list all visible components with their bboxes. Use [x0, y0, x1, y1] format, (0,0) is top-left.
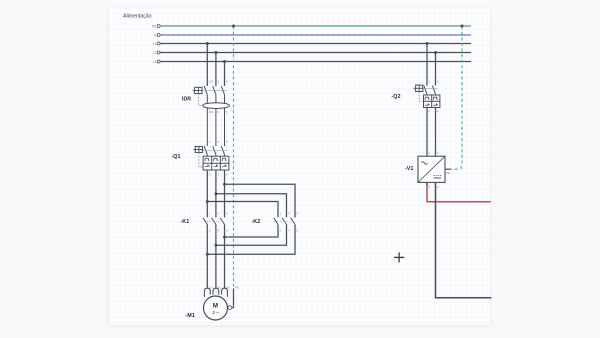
V1 AC symbol [422, 162, 428, 165]
wire Q2 pole1 to V1 [426, 108, 428, 157]
bus N (blue) [160, 34, 471, 36]
junction on L1 [206, 42, 209, 45]
K1 blade pole 3 [220, 218, 224, 225]
svg-text:PE: PE [152, 25, 156, 29]
Q2 magnetic elements [425, 104, 430, 106]
motor PE terminal [228, 306, 232, 310]
V1 PE stub [445, 168, 451, 170]
svg-text:L1: L1 [153, 42, 157, 46]
junction right PE [461, 25, 464, 28]
contactor K1 [203, 211, 228, 232]
wire L3 to IDR pole 3 [224, 62, 226, 87]
svg-text:4: 4 [437, 185, 439, 189]
junction pole3 branch [223, 183, 226, 186]
svg-text:1: 1 [428, 151, 430, 155]
K2 blade pole 3 [291, 218, 295, 225]
DC positive wire (red) [427, 182, 491, 201]
motor terminal sleeve V1 [213, 288, 219, 295]
Q1 linkage bar [202, 149, 227, 151]
PE dropper wire (green dashed, left) [233, 26, 235, 289]
svg-text:3: 3 [217, 211, 219, 215]
Q2 trip box [424, 95, 440, 108]
Q1 thermal elements [205, 158, 210, 161]
svg-text:6: 6 [226, 228, 228, 232]
svg-text:1: 1 [209, 140, 211, 144]
svg-text:2: 2 [428, 185, 430, 189]
IDR pole wires through toroid [206, 95, 208, 146]
PE dropper wire (green dashed, right) [451, 26, 463, 169]
svg-text:-M1: -M1 [186, 313, 195, 319]
IDR blade pole 2 [213, 86, 216, 95]
wire L1 to IDR pole 1 [206, 44, 208, 87]
K1 blade pole 1 [203, 218, 207, 225]
svg-text:6: 6 [226, 110, 228, 114]
svg-text:-K2: -K2 [252, 219, 261, 225]
bus L3 [160, 61, 471, 63]
svg-text:L3: L3 [153, 60, 157, 64]
IDR linkage bar [202, 89, 227, 91]
svg-text:4: 4 [217, 172, 219, 176]
Q2 linkage bar [423, 88, 437, 90]
Q2 actuator button [416, 85, 423, 91]
merge wire K2 pole3 to K1 pole1 [207, 224, 295, 254]
Q1 trip box [203, 156, 229, 170]
stub V1 out 2 [426, 182, 428, 186]
Q2 blade pole 1 [424, 86, 427, 95]
svg-text:2: 2 [428, 109, 430, 113]
svg-text:-Q1: -Q1 [172, 154, 181, 160]
Q2 trip dashed link [419, 92, 423, 102]
wires Q1 to K1 [207, 170, 295, 217]
converter V1 [418, 156, 451, 182]
wire pole3 down [224, 170, 226, 217]
V1 DC symbol [434, 174, 442, 176]
terminal N [157, 34, 160, 37]
svg-text:5: 5 [226, 140, 228, 144]
svg-text:5: 5 [226, 211, 228, 215]
svg-text:2: 2 [280, 228, 282, 232]
Q1 magnetic elements [205, 165, 210, 167]
svg-text:2: 2 [209, 172, 211, 176]
junction pole2 branch [214, 192, 217, 195]
svg-text:3: 3 [288, 211, 290, 215]
Q2 thermal elements [425, 97, 430, 100]
svg-text:4: 4 [217, 228, 219, 232]
Q1 short wires into trip box [206, 155, 208, 157]
junction merge pole3 [223, 236, 226, 239]
svg-text:N: N [154, 34, 157, 38]
wire pole1 down [206, 170, 208, 217]
junction on PE bus [232, 25, 235, 28]
svg-text:5: 5 [297, 211, 299, 215]
svg-text:2: 2 [209, 228, 211, 232]
svg-text:3: 3 [217, 80, 219, 84]
K2 blade pole 1 [274, 218, 278, 225]
svg-text:3: 3 [437, 151, 439, 155]
bus L2 [160, 52, 471, 54]
svg-text:5: 5 [226, 80, 228, 84]
junction Q2 on L1 [426, 42, 429, 45]
Q1 blade pole 3 [221, 146, 224, 155]
IDR toroid [203, 103, 230, 109]
motor terminal sleeve W1 [222, 288, 228, 297]
svg-text:1/N: 1/N [209, 80, 214, 84]
merge wire K2 pole1 to K1 pole3 [225, 224, 279, 237]
junction on L2 [214, 51, 217, 54]
junction on L3 [223, 60, 226, 63]
wires K1/K2 to motor [207, 224, 295, 288]
drawing canvas [109, 8, 490, 325]
K2 linkage dashes [274, 220, 294, 222]
svg-text:-V1: -V1 [405, 166, 413, 172]
merge wire K2 pole2 to K1 pole2 [216, 224, 287, 245]
junction pole1 branch [206, 200, 209, 203]
bus PE (green) [160, 25, 471, 27]
bus L1 [160, 43, 471, 45]
Q1 blade pole 1 [204, 146, 207, 155]
svg-text:1: 1 [428, 80, 430, 84]
motor terminal sleeve U1 [204, 288, 210, 297]
Q1 blade pole 2 [213, 146, 216, 155]
svg-text:3: 3 [437, 80, 439, 84]
contactor K2 [274, 211, 299, 232]
terminal L1 [157, 42, 160, 45]
Q2 blade pole 2 [432, 86, 435, 95]
svg-text:3: 3 [217, 140, 219, 144]
terminal L3 [157, 60, 160, 63]
branch wire to K2 pole 1 [207, 202, 278, 218]
svg-text:L2: L2 [153, 51, 157, 55]
wire K1 pole1 to motor U1 [206, 224, 208, 288]
wire PE to motor [232, 289, 234, 308]
svg-text:4: 4 [437, 109, 439, 113]
K1 blade pole 2 [212, 218, 216, 225]
K1 linkage dashes [204, 220, 225, 222]
svg-text:1: 1 [280, 211, 282, 215]
cursor plus [394, 252, 404, 262]
svg-text:PE: PE [446, 171, 450, 175]
IDR blade pole 3 [221, 86, 224, 95]
wire L1 to Q2 pole 1 [426, 44, 428, 86]
residual current device IDR [193, 80, 230, 146]
branch wire to K2 pole 3 [225, 184, 296, 217]
svg-text:6: 6 [297, 228, 299, 232]
branch wire to K2 pole 2 [216, 194, 287, 218]
wire pole2 down [215, 170, 217, 217]
svg-text:-Q2: -Q2 [392, 94, 401, 100]
svg-text:4: 4 [217, 110, 219, 114]
svg-text:1: 1 [209, 211, 211, 215]
V1 body [418, 156, 445, 182]
DC negative wire (black) [436, 182, 492, 297]
wire L2 to IDR pole 2 [215, 53, 217, 87]
svg-text:6: 6 [226, 172, 228, 176]
IDR test button [195, 87, 202, 93]
terminal L2 [157, 51, 160, 54]
Q1 trip dashed link [199, 153, 203, 167]
svg-text:4: 4 [288, 228, 290, 232]
junction merge pole2 [214, 244, 217, 247]
wire K1 pole3 to motor W1 [224, 224, 226, 288]
junction merge pole1 [206, 253, 209, 256]
wire L2 to Q2 pole 2 [435, 53, 437, 86]
svg-text:IDR: IDR [182, 97, 191, 103]
terminal PE [157, 25, 160, 28]
svg-text:2/N: 2/N [209, 110, 214, 114]
wire K1 pole2 to motor V1 [215, 224, 217, 288]
wire Q2 pole2 to V1 [435, 108, 437, 157]
motor M1 [204, 296, 228, 320]
svg-text:M: M [213, 302, 218, 309]
svg-text:3 ~: 3 ~ [212, 310, 219, 315]
IDR trip dashed link [198, 94, 203, 106]
Q2 short wires into trip box [426, 93, 428, 96]
circuit breaker Q2 [414, 80, 440, 113]
junction Q2 on L2 [434, 51, 437, 54]
Q1 actuator button [195, 147, 202, 153]
svg-text:PE: PE [235, 285, 239, 289]
K2 blade pole 2 [282, 218, 286, 225]
circuit breaker Q1 [193, 140, 229, 176]
IDR blade pole 1 [204, 86, 207, 95]
svg-text:Alimentação: Alimentação [123, 14, 152, 20]
svg-text:-K1: -K1 [181, 219, 190, 225]
